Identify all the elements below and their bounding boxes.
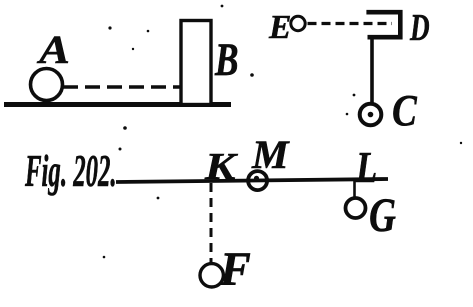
svg-text:B: B [214, 33, 238, 85]
svg-text:K: K [204, 145, 239, 188]
svg-text:E: E [268, 9, 291, 46]
bracket D [366, 12, 400, 37]
lens M circle [248, 171, 267, 190]
wire dashed E to D [308, 22, 393, 25]
wire dashed K to F [210, 183, 213, 263]
block B [181, 21, 211, 105]
svg-text:Fig. 202.: Fig. 202. [24, 145, 116, 196]
wire L to G [353, 180, 356, 198]
svg-text:L: L [355, 142, 377, 192]
axis line K L [116, 179, 388, 182]
ball A [31, 69, 63, 101]
svg-text:D: D [409, 6, 429, 49]
node E circle [291, 16, 305, 30]
svg-text:C: C [392, 86, 417, 135]
svg-text:A: A [36, 29, 70, 73]
node G circle [346, 198, 366, 218]
ground line [4, 102, 231, 107]
wire dashed A to B [63, 85, 186, 89]
wire D to C [370, 37, 374, 103]
bob C circle [360, 104, 382, 126]
bob F circle [200, 264, 223, 287]
svg-text:F: F [219, 243, 251, 296]
speckles [108, 26, 111, 29]
svg-text:G: G [369, 190, 396, 242]
